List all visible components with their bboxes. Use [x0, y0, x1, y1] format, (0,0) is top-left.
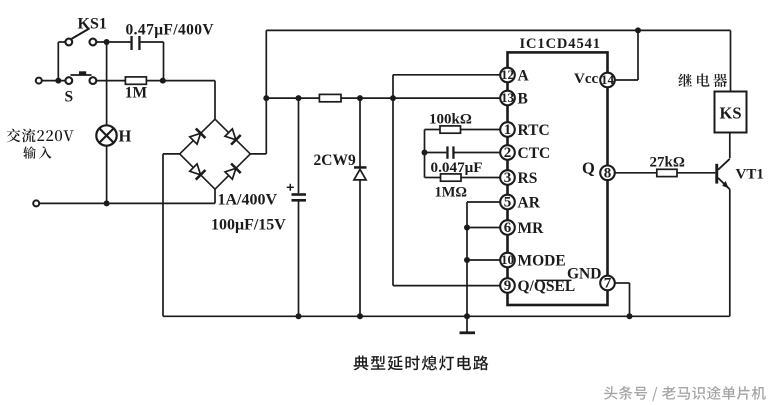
- svg-text:1M: 1M: [125, 85, 148, 102]
- svg-text:7: 7: [604, 276, 612, 292]
- svg-text:100μF/15V: 100μF/15V: [211, 217, 286, 234]
- svg-text:S: S: [65, 89, 74, 106]
- svg-text:RTC: RTC: [518, 122, 550, 139]
- svg-text:0.47μF/400V: 0.47μF/400V: [126, 22, 215, 39]
- svg-text:2: 2: [504, 145, 512, 161]
- svg-text:A: A: [518, 68, 530, 85]
- svg-text:MODE: MODE: [518, 253, 566, 270]
- svg-text:5: 5: [504, 195, 512, 211]
- svg-text:27kΩ: 27kΩ: [650, 155, 685, 171]
- svg-text:12: 12: [501, 67, 514, 82]
- svg-text:1MΩ: 1MΩ: [435, 185, 468, 201]
- svg-text:6: 6: [504, 220, 512, 236]
- svg-text:Q: Q: [582, 159, 595, 178]
- svg-text:CTC: CTC: [518, 145, 551, 162]
- svg-text:MR: MR: [518, 220, 545, 237]
- svg-text:13: 13: [501, 90, 515, 105]
- svg-text:RS: RS: [518, 170, 538, 187]
- svg-text:VT1: VT1: [736, 167, 764, 183]
- svg-text:9: 9: [504, 278, 512, 294]
- svg-text:10: 10: [501, 252, 514, 267]
- svg-text:100kΩ: 100kΩ: [429, 112, 472, 128]
- svg-text:2CW9: 2CW9: [314, 152, 356, 169]
- svg-text:AR: AR: [518, 195, 541, 212]
- svg-text:KS1: KS1: [78, 16, 107, 33]
- svg-text:IC1CD4541: IC1CD4541: [520, 36, 601, 52]
- svg-text:1A/400V: 1A/400V: [218, 192, 278, 209]
- svg-text:14: 14: [601, 72, 615, 87]
- svg-text:0.047μF: 0.047μF: [431, 159, 483, 176]
- svg-text:Vcc: Vcc: [574, 71, 598, 87]
- svg-text:1: 1: [504, 122, 512, 138]
- svg-text:B: B: [518, 91, 528, 108]
- svg-text:3: 3: [504, 170, 512, 186]
- svg-text:8: 8: [604, 165, 612, 181]
- svg-text:KS: KS: [719, 104, 741, 123]
- svg-text:H: H: [119, 127, 132, 146]
